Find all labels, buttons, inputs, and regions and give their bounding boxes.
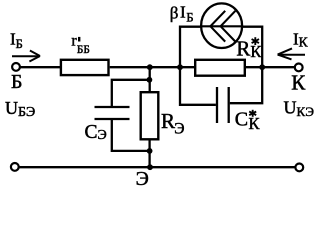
wire r'ББ to R*К (main collector wire through nodes) (110, 66, 195, 68)
wire current source left loop (up over to circle, down to C*К left plate) (180, 27, 216, 105)
wire R*К right stub to collector terminal (246, 66, 295, 68)
arrow IК (collector current, pointing left) (278, 48, 305, 59)
resistor r'ББ (61, 60, 109, 75)
wire node D1 down to RЭ (149, 67, 151, 91)
node D5 (current source left leg on main wire) (177, 64, 183, 70)
current source arrow shaft (201, 25, 243, 27)
terminal Э right (bottom-right circle) (295, 164, 303, 172)
current source chevron 2 (221, 11, 236, 42)
svg-text:ББ: ББ (77, 44, 90, 56)
node D3 (CЭ/RЭ bottom tee) (147, 148, 153, 154)
arrow IБ (base current, pointing right) (12, 51, 40, 62)
wire node D2 left and down to CЭ top plate (112, 80, 150, 107)
svg-text:К: К (249, 114, 261, 133)
svg-text:Э: Э (136, 168, 149, 190)
prime tick of r'ББ (78, 37, 80, 42)
node D1 (top of RЭ/CЭ branch) (147, 64, 153, 70)
node D6 (current source right leg on main wire) (259, 64, 265, 70)
current source chevron 1 (210, 11, 225, 42)
svg-text:Б: Б (11, 71, 22, 93)
terminal Э left (bottom-left circle) (11, 163, 19, 171)
wire current source right loop (from circle right down to C*К right plate) (230, 27, 262, 104)
wire CЭ bottom plate down and right to node D3 (112, 119, 150, 151)
capacitor CЭ (95, 107, 130, 119)
wire RЭ bottom to emitter rail (148, 139, 150, 167)
resistor RЭ (141, 92, 159, 139)
svg-text:R: R (236, 37, 250, 61)
svg-text:Э: Э (174, 120, 184, 137)
svg-text:I: I (180, 2, 186, 21)
node D2 (CЭ branch tee) (147, 77, 153, 83)
svg-text:β: β (170, 3, 179, 22)
svg-text:Б: Б (186, 10, 193, 24)
svg-text:К: К (291, 71, 306, 95)
svg-text:С: С (235, 109, 248, 131)
node D4 (emitter rail junction) (147, 164, 153, 170)
svg-text:К: К (250, 42, 262, 61)
resistor R*К (195, 60, 245, 76)
wire base terminal to r'BB resistor (20, 66, 60, 68)
svg-text:R: R (161, 109, 175, 133)
terminal Б (base, top-left circle) (12, 63, 20, 71)
emitter rail wire (19, 166, 294, 168)
current source U1 βIБ (circle) (201, 3, 242, 48)
capacitor C*К (217, 87, 229, 123)
terminal К (collector, top-right circle) (295, 64, 303, 72)
